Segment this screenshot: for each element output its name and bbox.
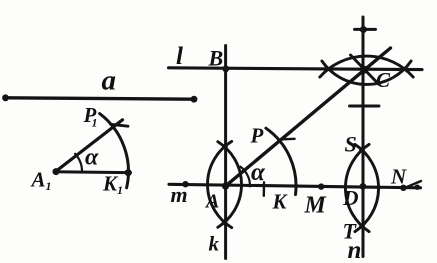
svg-text:α: α xyxy=(85,145,99,171)
tick near N xyxy=(405,181,422,188)
line m (bottom horizontal) xyxy=(169,184,421,188)
svg-text:m: m xyxy=(171,182,188,207)
point dot on m left xyxy=(182,181,188,187)
compass arc through K1 and P1 xyxy=(100,114,129,188)
blob at S xyxy=(359,147,365,153)
svg-text:P: P xyxy=(250,124,264,148)
svg-text:N: N xyxy=(390,165,407,189)
svg-text:l: l xyxy=(176,43,183,70)
blob at lens crossing below A xyxy=(222,220,228,226)
segment a xyxy=(6,98,195,99)
lens arc left-bulging at A xyxy=(208,141,232,227)
point N dot xyxy=(400,185,406,191)
svg-text:M: M xyxy=(304,193,328,219)
tick dash at P xyxy=(280,138,295,141)
svg-text:n: n xyxy=(348,237,362,263)
compass arc centered at A through P xyxy=(266,128,296,194)
line k (vertical through B and A) xyxy=(224,46,227,259)
endpoint dot right of segment a xyxy=(191,96,198,103)
angle alpha arc at A xyxy=(241,167,250,187)
cross stroke at C xyxy=(351,55,379,84)
plus tick top of line n xyxy=(355,28,376,31)
point A dot xyxy=(222,183,229,190)
label P1 xyxy=(83,103,98,130)
svg-text:S: S xyxy=(345,132,357,157)
line n (vertical through C and D) xyxy=(362,17,365,257)
lens arc left-bulging at D xyxy=(345,144,369,231)
svg-text:C: C xyxy=(376,68,391,92)
endpoint dot left of segment a xyxy=(2,94,9,101)
blob at T xyxy=(359,223,365,229)
svg-text:α: α xyxy=(251,159,266,186)
svg-text:B: B xyxy=(208,46,224,71)
blob at right end of m xyxy=(415,185,420,190)
blob at plus tick xyxy=(360,26,367,33)
line l (top horizontal) xyxy=(169,68,423,70)
plus tick below C on line n xyxy=(350,105,380,108)
point C blob xyxy=(360,66,368,74)
svg-text:A: A xyxy=(204,191,219,213)
svg-text:A: A xyxy=(30,168,46,192)
lens arc bottom at C xyxy=(322,61,411,84)
svg-text:a: a xyxy=(102,65,117,97)
svg-text:1: 1 xyxy=(46,179,52,193)
lens arc top at C xyxy=(320,56,413,77)
label K1 xyxy=(102,172,123,198)
svg-text:D: D xyxy=(342,186,359,210)
point D dot xyxy=(360,183,367,190)
svg-text:1: 1 xyxy=(92,116,98,130)
tick dash at P1 xyxy=(111,124,129,126)
point A1 dot xyxy=(53,168,60,175)
diagonal ray A-P-C xyxy=(226,48,391,186)
point M dot xyxy=(318,183,324,189)
svg-text:1: 1 xyxy=(117,183,123,197)
svg-text:K: K xyxy=(272,190,289,214)
ray A1-P1 (inclined side of angle alpha) xyxy=(55,120,123,172)
angle alpha arc at A1 xyxy=(75,154,82,173)
point B dot xyxy=(222,65,229,72)
blob at lens crossing above A xyxy=(222,144,228,150)
lens arc right-bulging at A xyxy=(218,142,242,228)
point K1 dot xyxy=(125,169,132,176)
lens arc right-bulging at D xyxy=(355,144,379,231)
tick at K xyxy=(263,182,266,196)
label A1 xyxy=(30,168,52,194)
svg-text:k: k xyxy=(209,232,220,256)
ray A1-K1 (horizontal side of angle alpha) xyxy=(54,172,131,173)
